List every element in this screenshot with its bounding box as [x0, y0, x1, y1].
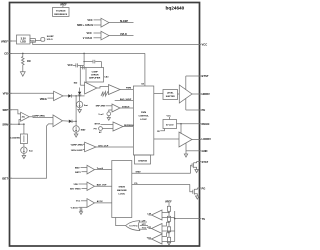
- svg-text:VCC: VCC: [87, 32, 92, 35]
- svg-text:4V: 4V: [99, 131, 102, 134]
- svg-text:IBAT: IBAT: [75, 167, 80, 170]
- svg-text:PWM: PWM: [126, 88, 131, 90]
- node EAO1: [75, 95, 77, 97]
- pin VCC: [202, 43, 208, 47]
- current source CS2: [73, 121, 86, 132]
- pwm comparator: [97, 85, 133, 95]
- ground STAT source: [195, 170, 199, 173]
- svg-text:PH: PH: [94, 128, 97, 130]
- svg-text:5 mV: 5 mV: [99, 114, 105, 116]
- pin VFB: [3, 92, 54, 96]
- wire STAT gate: [132, 165, 193, 173]
- wire CE drop to PWM logic: [141, 53, 145, 86]
- svg-text:CE: CE: [157, 131, 161, 133]
- svg-text:bq24640: bq24640: [166, 5, 185, 10]
- svg-text:PWM: PWM: [141, 112, 146, 114]
- diode D3: [69, 120, 76, 123]
- svg-text:IBAT: IBAT: [81, 129, 86, 132]
- svg-text:UVLO: UVLO: [120, 33, 127, 36]
- svg-text:PG: PG: [202, 186, 206, 190]
- capacitor C2: [80, 66, 86, 70]
- svg-text:CONTROL: CONTROL: [138, 116, 149, 118]
- svg-text:CHRGR: CHRGR: [91, 74, 99, 76]
- ground below CS1: [78, 108, 82, 113]
- pin CE: [4, 52, 12, 56]
- capacitor C1 top: [93, 60, 95, 64]
- svg-text:VCC: VCC: [202, 43, 208, 47]
- svg-text:TermS: TermS: [97, 167, 104, 170]
- resistor 1M: [22, 53, 31, 68]
- svg-text:AMPLIFIER: AMPLIFIER: [89, 76, 101, 79]
- pin TS: [174, 217, 205, 221]
- resistor LOADING: [10, 134, 27, 144]
- svg-text:SRP: SRP: [2, 108, 8, 112]
- svg-text:PG: PG: [134, 183, 137, 185]
- VCC tag box: [30, 39, 35, 43]
- svg-text:SYNCH: SYNCH: [122, 106, 130, 108]
- pin LODRV: [192, 137, 211, 141]
- svg-text:VCC: VCC: [167, 115, 172, 117]
- chip border frame: [10, 3, 200, 247]
- op-amp block COMP CHRGR AMPLIFIER: [86, 68, 109, 83]
- current source IBAT2: [21, 144, 33, 154]
- node comp loop junction: [83, 53, 85, 55]
- diode D2 vertical: [78, 88, 81, 97]
- pin GND: [186, 149, 208, 153]
- op-amp 20x current sense: [18, 112, 29, 125]
- svg-text:VCC: VCC: [76, 201, 81, 203]
- svg-text:VFB: VFB: [3, 92, 8, 96]
- block CHARGE: [135, 155, 151, 164]
- svg-text:20x: 20x: [22, 117, 26, 119]
- svg-text:EAI: EAI: [74, 82, 78, 85]
- wire CE: [10, 52, 145, 54]
- svg-text:EAO_SUSP: EAO_SUSP: [120, 98, 132, 101]
- pin BTST: [186, 74, 209, 90]
- node EAO2: [75, 121, 77, 123]
- svg-text:VOLTAGE: VOLTAGE: [56, 10, 66, 13]
- svg-text:VFB: VFB: [74, 184, 79, 186]
- svg-text:SRN: SRN: [2, 122, 8, 126]
- svg-text:CE: CE: [4, 52, 8, 56]
- svg-text:SHIFTER: SHIFTER: [166, 96, 175, 98]
- svg-text:V UVLO: V UVLO: [83, 37, 92, 40]
- ground ladder: [167, 242, 171, 245]
- svg-text:LOADING: LOADING: [10, 137, 20, 140]
- comparator CHG_OCP: [71, 142, 134, 152]
- wire PG gate: [132, 183, 193, 192]
- voltage reference block: [53, 3, 70, 16]
- svg-text:REFERENCE: REFERENCE: [54, 14, 67, 16]
- svg-text:LEVEL: LEVEL: [167, 93, 174, 95]
- wire 20x out: [29, 115, 53, 117]
- svg-text:BAT_OVP: BAT_OVP: [97, 184, 107, 187]
- svg-text:VCC: VCC: [68, 64, 73, 67]
- wire ISET: [10, 124, 54, 178]
- resistor R3: [167, 227, 170, 232]
- resistor R2: [167, 216, 170, 221]
- pin PH: [186, 98, 205, 112]
- svg-text:LODRV: LODRV: [202, 137, 212, 141]
- svg-text:94% VREG: 94% VREG: [70, 188, 81, 191]
- comparator TERM: [75, 165, 112, 174]
- svg-text:V(SRP-SRN): V(SRP-SRN): [33, 115, 45, 117]
- svg-text:GND: GND: [202, 149, 208, 153]
- comparator TCO: [147, 232, 175, 244]
- pin HIDRV: [192, 92, 210, 96]
- comparator UVLO: [83, 31, 134, 40]
- ground PG source: [196, 196, 200, 199]
- svg-text:ISET: ISET: [2, 176, 8, 180]
- ground arrow below 1M: [20, 68, 25, 76]
- comparator HTF: [147, 222, 175, 234]
- wire VCC stub: [73, 64, 76, 66]
- comparator ACOV: [71, 199, 112, 215]
- svg-text:REFRESH: REFRESH: [124, 125, 134, 127]
- driver LODRV: [154, 132, 192, 147]
- pin ticks right: [200, 44, 202, 46]
- svg-text:BTST: BTST: [95, 123, 101, 125]
- node CE junction: [22, 53, 24, 55]
- ground below CS2: [74, 132, 78, 137]
- wire EAI2 out: [63, 120, 69, 122]
- svg-text:STATE: STATE: [119, 186, 126, 189]
- svg-text:TS: TS: [202, 217, 206, 221]
- transistor STAT nmos: [192, 162, 197, 170]
- op-amp EAI2: [53, 115, 63, 127]
- regulator 6V LDO: [157, 115, 177, 133]
- svg-text:HIDRV: HIDRV: [202, 92, 211, 96]
- wire EAV out: [63, 95, 68, 97]
- svg-text:LDO: LDO: [21, 41, 26, 44]
- pin ISET: [2, 176, 12, 180]
- svg-text:CHG_OCP: CHG_OCP: [98, 145, 109, 147]
- svg-text:COMP: COMP: [92, 71, 99, 73]
- svg-text:ACOV: ACOV: [97, 200, 104, 203]
- svg-text:STAT: STAT: [202, 160, 209, 164]
- svg-text:MACHINE: MACHINE: [117, 189, 127, 192]
- svg-text:1M: 1M: [27, 60, 30, 63]
- svg-text:REGN: REGN: [202, 122, 210, 126]
- pin STAT: [197, 160, 209, 164]
- gate SUSPEND: [116, 218, 148, 231]
- op-amp EAI: [74, 82, 97, 94]
- comparator REFRESH: [94, 122, 135, 134]
- svg-text:TCO: TCO: [142, 228, 147, 230]
- svg-text:VREF: VREF: [165, 200, 172, 203]
- block STATE MACHINE LOGIC: [112, 161, 132, 218]
- svg-text:V(SRP-SRN): V(SRP-SRN): [71, 145, 83, 147]
- ground below IBAT2: [22, 153, 26, 158]
- comparator SLEEP: [77, 18, 134, 27]
- svg-text:SLEEP: SLEEP: [120, 20, 129, 23]
- pin PG: [197, 186, 205, 190]
- TS network VREF: [165, 200, 172, 242]
- svg-text:BTST: BTST: [202, 74, 209, 78]
- svg-text:HTF: HTF: [142, 224, 147, 226]
- svg-text:CE: CE: [141, 83, 145, 85]
- wire VCC rail: [33, 42, 200, 44]
- resistor R4: [167, 237, 170, 242]
- svg-text:Ibat: Ibat: [29, 150, 33, 153]
- regulator 3.3V LDO: [17, 35, 31, 44]
- svg-text:LOGIC: LOGIC: [140, 119, 147, 121]
- resistor R1: [167, 206, 170, 211]
- comparator SYNCH: [96, 104, 134, 120]
- svg-text:SUSPEND: SUSPEND: [129, 225, 138, 227]
- svg-text:STAT: STAT: [136, 171, 142, 174]
- diode D1: [68, 94, 84, 97]
- svg-text:SRN + 165mV: SRN + 165mV: [77, 24, 94, 27]
- svg-text:SRP-SRN: SRP-SRN: [96, 106, 106, 108]
- wire EAO rail: [75, 96, 77, 121]
- svg-text:VREF: VREF: [60, 3, 67, 6]
- svg-text:Ibat: Ibat: [84, 104, 88, 107]
- ground LODRV source: [184, 143, 187, 157]
- svg-text:VCC: VCC: [87, 19, 92, 22]
- ramp sawtooth: [101, 92, 109, 97]
- comparator BAT_OVP: [70, 182, 112, 191]
- svg-text:ISET2: ISET2: [75, 172, 82, 174]
- svg-text:LOGIC: LOGIC: [119, 194, 126, 196]
- transistor PG nmos: [193, 188, 198, 196]
- op-amp EAV error amplifier: [40, 91, 63, 101]
- driver HIDRV: [179, 85, 192, 103]
- svg-text:6V LDO: 6V LDO: [166, 124, 174, 126]
- current source CS1: [76, 96, 88, 108]
- svg-text:VREG: VREG: [40, 98, 47, 101]
- comparator LTF: [147, 210, 174, 220]
- svg-text:UVLO: UVLO: [47, 39, 53, 41]
- wire SRN drop: [23, 124, 25, 134]
- svg-text:SLEEP: SLEEP: [47, 36, 54, 38]
- sleep switch: [35, 36, 54, 41]
- wire EAO_SUSP: [115, 98, 134, 101]
- block PWM CONTROL LOGIC: [133, 86, 153, 155]
- pin SRN: [2, 122, 24, 126]
- svg-text:105% ILIMIT: 105% ILIMIT: [71, 150, 84, 152]
- node SRN junction: [23, 123, 25, 125]
- wire comp loop: [80, 53, 101, 85]
- svg-text:CA3: CA3: [104, 75, 109, 78]
- block LEVEL SHIFTER: [154, 90, 180, 100]
- svg-text:PH: PH: [202, 108, 206, 112]
- wire TS vertical: [174, 211, 176, 242]
- pin REGN: [177, 122, 210, 134]
- pin VREF: [1, 39, 17, 43]
- svg-text:V ACOV: V ACOV: [71, 206, 80, 209]
- pin SRP: [2, 108, 20, 114]
- svg-text:CHARGE: CHARGE: [138, 160, 148, 163]
- svg-text:VREF: VREF: [1, 39, 9, 43]
